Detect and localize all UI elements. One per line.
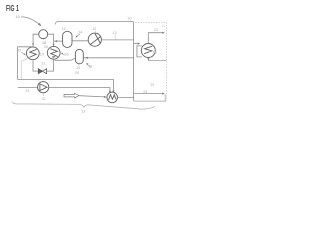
wire top pump left leg <box>33 34 39 47</box>
wire step into HX 16 <box>134 43 138 45</box>
svg-text:22: 22 <box>154 28 158 32</box>
svg-text:23: 23 <box>143 90 147 94</box>
heater core HX bottom <box>107 92 118 103</box>
svg-text:FIG 1: FIG 1 <box>6 4 19 13</box>
wire long line y87.5 right <box>49 88 110 92</box>
dashed boundary box <box>135 22 166 100</box>
wire accumulator right line <box>84 57 134 59</box>
wire bottom edge of boundary <box>134 100 166 102</box>
node 18 label with tick <box>42 39 44 41</box>
wire HX16 to right edge <box>148 59 166 61</box>
heat-exchanger HX left (condenser 40) <box>26 47 39 60</box>
wire long line y87.5 left <box>18 87 38 89</box>
wire top pump right leg <box>48 34 54 46</box>
svg-text:34: 34 <box>78 31 82 35</box>
wire 26 arrow <box>62 54 65 55</box>
wire arrow line 23 <box>134 93 163 95</box>
receiver vessel 14 <box>63 31 72 47</box>
svg-text:16: 16 <box>152 50 156 54</box>
svg-text:25: 25 <box>150 83 154 87</box>
svg-text:21: 21 <box>41 62 45 66</box>
svg-text:30: 30 <box>127 17 131 21</box>
wire 40 arrow <box>22 52 25 54</box>
svg-text:12: 12 <box>92 27 96 31</box>
wire HX16 bottom stub <box>147 58 149 60</box>
wire block arrow to heater <box>79 96 104 97</box>
wire 34 arrow <box>77 34 80 36</box>
wire top edge of loop <box>56 22 134 25</box>
wire right HX branch to accumulator 20 <box>55 58 76 60</box>
block arrow inlet <box>64 93 79 98</box>
wire left HX bottom to valve <box>33 60 38 71</box>
compressor 12 <box>88 33 101 46</box>
wire flow arrow on right HX bottom arc <box>52 56 56 59</box>
svg-text:28: 28 <box>44 45 48 49</box>
brace system 13 <box>13 102 155 109</box>
wire 18 arrow <box>87 64 90 66</box>
svg-text:32: 32 <box>42 97 46 101</box>
wire HX16 top outlet <box>148 33 162 44</box>
heat-exchanger HX right (condenser 26) <box>47 46 60 59</box>
wire heater outlet <box>118 96 134 98</box>
wire right vertical main <box>133 22 135 101</box>
wire inner faint left branch <box>21 58 28 79</box>
wire HX16 left loop <box>137 46 142 57</box>
wire curved leader arrow from 10 <box>21 17 40 25</box>
accumulator vessel 20 <box>75 49 83 63</box>
svg-text:10: 10 <box>15 14 20 19</box>
svg-text:24: 24 <box>25 89 29 93</box>
svg-text:13: 13 <box>81 109 85 113</box>
svg-text:19: 19 <box>40 53 44 57</box>
svg-text:20: 20 <box>75 71 79 75</box>
pump 32 <box>38 82 49 93</box>
wire outer left edge <box>18 47 32 80</box>
heat-exchanger HX 16 outdoor <box>141 44 155 58</box>
node 14b label under accumulator <box>77 64 79 66</box>
svg-text:14: 14 <box>62 27 66 31</box>
wire long line y79.5 <box>18 80 114 92</box>
wire receiver to compressor <box>72 40 88 42</box>
svg-text:11: 11 <box>162 24 166 28</box>
svg-text:26: 26 <box>64 53 68 57</box>
wire right riser at dashed edge <box>164 94 166 101</box>
top circle pump 18 <box>39 30 48 39</box>
svg-text:40: 40 <box>17 48 21 52</box>
wire valve right to right HX bottom <box>47 60 54 72</box>
wire arrow into left HX <box>32 43 34 46</box>
svg-text:13: 13 <box>113 31 117 35</box>
svg-text:14: 14 <box>76 66 80 70</box>
valve 21 expansion <box>38 69 46 74</box>
wire compressor discharge <box>101 39 133 41</box>
wire arrow into right HX <box>53 44 55 46</box>
wire junction to receiver 14 <box>54 40 63 42</box>
